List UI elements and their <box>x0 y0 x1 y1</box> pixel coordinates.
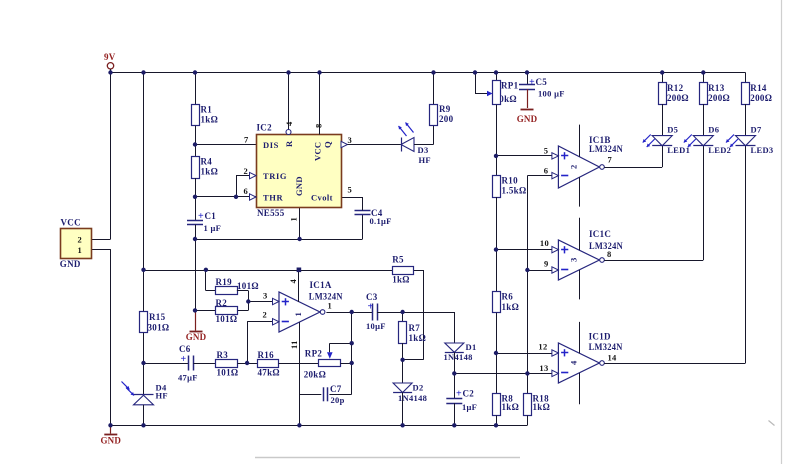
svg-text:VCC: VCC <box>61 218 81 228</box>
svg-text:R2: R2 <box>216 298 228 308</box>
svg-text:C7: C7 <box>330 384 342 394</box>
svg-text:IC1D: IC1D <box>589 332 611 342</box>
svg-text:12: 12 <box>538 342 547 352</box>
svg-text:GND: GND <box>60 259 81 269</box>
svg-text:C3: C3 <box>366 292 378 302</box>
svg-text:C2: C2 <box>463 389 475 399</box>
svg-text:101Ω: 101Ω <box>237 281 259 291</box>
svg-text:D7: D7 <box>751 125 762 135</box>
svg-text:LM324N: LM324N <box>309 292 343 302</box>
svg-text:1kΩ: 1kΩ <box>392 275 410 285</box>
svg-text:R12: R12 <box>667 83 684 93</box>
svg-text:1kΩ: 1kΩ <box>409 333 427 343</box>
svg-text:LM324N: LM324N <box>589 144 623 154</box>
svg-text:8: 8 <box>314 123 324 128</box>
svg-text:1 μF: 1 μF <box>204 223 222 233</box>
svg-text:R19: R19 <box>216 277 233 287</box>
svg-text:200Ω: 200Ω <box>708 93 730 103</box>
svg-text:2: 2 <box>569 164 579 169</box>
svg-text:R6: R6 <box>502 292 514 302</box>
svg-text:0.1μF: 0.1μF <box>370 216 392 226</box>
svg-text:D2: D2 <box>413 383 424 393</box>
svg-text:200Ω: 200Ω <box>667 93 689 103</box>
svg-text:IC1C: IC1C <box>589 229 611 239</box>
svg-text:47μF: 47μF <box>178 373 198 383</box>
svg-text:1kΩ: 1kΩ <box>201 167 219 177</box>
svg-text:D3: D3 <box>418 145 429 155</box>
svg-text:IC1A: IC1A <box>310 280 332 290</box>
svg-text:D6: D6 <box>708 125 719 135</box>
svg-text:3: 3 <box>569 257 579 262</box>
svg-text:RP1: RP1 <box>501 81 519 91</box>
svg-text:10: 10 <box>540 238 549 248</box>
svg-text:R14: R14 <box>750 83 767 93</box>
svg-text:13: 13 <box>539 363 548 373</box>
svg-text:R5: R5 <box>392 255 404 265</box>
svg-text:301Ω: 301Ω <box>148 323 170 333</box>
svg-text:LED1: LED1 <box>667 145 690 155</box>
svg-text:Q: Q <box>323 141 333 148</box>
svg-text:GND: GND <box>517 114 538 124</box>
svg-text:1kΩ: 1kΩ <box>533 402 551 412</box>
svg-text:1kΩ: 1kΩ <box>502 402 520 412</box>
svg-text:5: 5 <box>348 185 353 195</box>
svg-text:R13: R13 <box>708 83 725 93</box>
svg-text:7: 7 <box>244 135 249 145</box>
svg-text:5: 5 <box>544 146 549 156</box>
svg-text:C5: C5 <box>536 77 548 87</box>
svg-text:200Ω: 200Ω <box>750 93 772 103</box>
svg-text:THR: THR <box>263 193 283 203</box>
svg-text:1kΩ: 1kΩ <box>502 302 520 312</box>
svg-text:VCC: VCC <box>313 142 323 161</box>
svg-text:47kΩ: 47kΩ <box>258 368 280 378</box>
svg-text:1: 1 <box>328 301 333 311</box>
svg-text:LED3: LED3 <box>751 145 774 155</box>
svg-text:7: 7 <box>608 155 613 165</box>
svg-text:HF: HF <box>156 391 168 401</box>
svg-text:4: 4 <box>569 360 579 365</box>
svg-text:3: 3 <box>263 291 268 301</box>
svg-text:6: 6 <box>544 166 549 176</box>
svg-text:1: 1 <box>77 245 82 255</box>
svg-text:C1: C1 <box>205 211 217 221</box>
svg-text:1: 1 <box>293 312 303 317</box>
svg-text:2: 2 <box>77 234 82 244</box>
svg-text:20p: 20p <box>331 395 345 405</box>
svg-text:IC2: IC2 <box>257 123 273 133</box>
svg-text:+: + <box>198 211 204 222</box>
svg-text:TRIG: TRIG <box>263 171 287 181</box>
svg-text:R7: R7 <box>409 323 421 333</box>
svg-text:R1: R1 <box>201 105 213 115</box>
svg-text:R16: R16 <box>258 350 275 360</box>
svg-text:DIS: DIS <box>263 140 279 150</box>
svg-text:1μF: 1μF <box>462 402 477 412</box>
svg-text:+: + <box>368 302 374 313</box>
svg-text:11: 11 <box>289 340 299 349</box>
svg-text:1kΩ: 1kΩ <box>201 115 219 125</box>
svg-text:HF: HF <box>419 155 431 165</box>
svg-text:+: + <box>456 389 462 400</box>
svg-text:Cvolt: Cvolt <box>311 193 333 203</box>
svg-text:14: 14 <box>608 353 618 363</box>
svg-text:R4: R4 <box>201 157 213 167</box>
svg-text:4: 4 <box>288 279 298 284</box>
svg-text:+: + <box>529 77 535 88</box>
svg-text:101Ω: 101Ω <box>217 368 239 378</box>
svg-text:R10: R10 <box>502 176 519 186</box>
svg-text:20kΩ: 20kΩ <box>304 370 326 380</box>
svg-text:101Ω: 101Ω <box>216 314 238 324</box>
svg-text:6: 6 <box>243 186 248 196</box>
svg-text:R9: R9 <box>439 104 451 114</box>
svg-text:LM324N: LM324N <box>589 342 623 352</box>
svg-text:200: 200 <box>439 114 454 124</box>
svg-text:NE555: NE555 <box>257 208 285 218</box>
svg-text:4: 4 <box>284 121 294 126</box>
svg-text:9: 9 <box>544 259 549 269</box>
svg-text:GND: GND <box>294 176 304 196</box>
svg-text:GND: GND <box>100 436 121 446</box>
svg-text:3: 3 <box>348 135 353 145</box>
svg-text:8: 8 <box>607 249 612 259</box>
svg-text:10μF: 10μF <box>366 321 386 331</box>
svg-text:LED2: LED2 <box>708 145 731 155</box>
svg-text:R: R <box>284 140 294 147</box>
svg-text:2: 2 <box>243 166 248 176</box>
svg-text:RP2: RP2 <box>305 349 323 359</box>
svg-text:2: 2 <box>262 310 267 320</box>
svg-text:D1: D1 <box>466 342 477 352</box>
svg-text:+: + <box>181 354 187 365</box>
svg-text:D5: D5 <box>667 125 678 135</box>
svg-text:GND: GND <box>186 332 207 342</box>
svg-text:1: 1 <box>289 217 299 222</box>
svg-text:9V: 9V <box>104 52 116 62</box>
svg-text:100 μF: 100 μF <box>538 89 565 99</box>
svg-text:R15: R15 <box>149 312 166 322</box>
svg-text:1N4148: 1N4148 <box>398 393 427 403</box>
svg-text:1N4148: 1N4148 <box>444 352 473 362</box>
svg-text:C6: C6 <box>179 344 191 354</box>
svg-text:1.5kΩ: 1.5kΩ <box>502 186 527 196</box>
svg-text:R3: R3 <box>217 350 229 360</box>
